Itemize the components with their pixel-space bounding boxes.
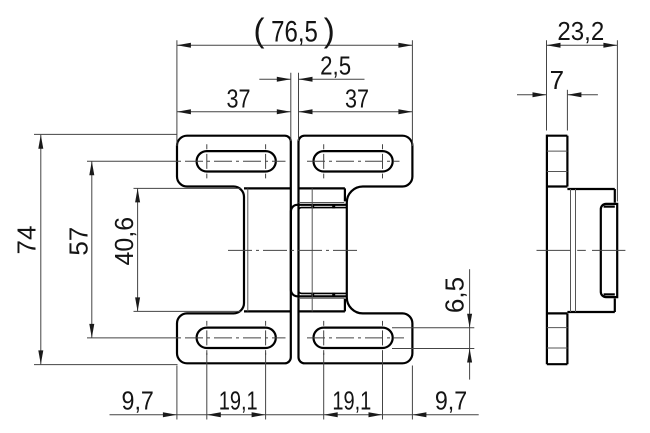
arrows 2,5 (277, 77, 291, 82)
side tab edge bottom (547, 312, 568, 314)
right plate top edge (299, 187, 345, 189)
arrowheads (38, 43, 617, 418)
arrows 37 left (177, 109, 191, 114)
slot cross marks top (207, 144, 383, 178)
side bar left edge (546, 135, 548, 365)
arrows 74 (38, 135, 43, 149)
dim line 57 (91, 161, 93, 338)
ext lines gap 2,5 (291, 73, 299, 141)
side plate right edge lower (614, 298, 616, 312)
svg-text:37: 37 (345, 84, 369, 113)
slot centerline top-right (307, 160, 400, 162)
left plate top edge (244, 187, 291, 189)
right plate right edge lower (344, 299, 346, 312)
svg-text:): ) (324, 11, 335, 48)
arrows bottom chain (163, 412, 177, 417)
side knuckle ledge top (604, 206, 615, 208)
bend line left plate (247, 188, 249, 311)
slot bottom-left (197, 328, 276, 348)
side horizontal centerline (537, 249, 626, 251)
left leaf outline (177, 136, 291, 364)
arrows 76,5 (177, 43, 191, 48)
dim line 37 left (177, 111, 291, 113)
svg-text:37: 37 (227, 84, 251, 113)
left plate bottom edge (244, 310, 291, 312)
knuckle inner contour (298, 208, 347, 294)
dim line 23,2 (547, 44, 618, 46)
dim line 74 (40, 135, 42, 365)
slot top-left (197, 151, 276, 171)
svg-text:76,5: 76,5 (271, 14, 318, 48)
right plate right edge upper (344, 188, 346, 201)
dim line 6,5 (469, 269, 471, 379)
side slot edge lines (547, 151, 568, 348)
dim line 76,5 (177, 44, 413, 46)
dim line 40,6 (137, 188, 139, 311)
dim line bottom chain (110, 414, 479, 416)
slot centerline bottom-right (307, 337, 404, 339)
side tab edge top (547, 185, 568, 187)
knuckle seam line bottom (299, 297, 345, 299)
arrows 57 (89, 161, 94, 175)
side plate right edge upper (614, 189, 616, 203)
arrows 40,6 (135, 188, 140, 202)
ext lines 74 (34, 134, 178, 364)
arrows 7 (533, 92, 547, 97)
knuckle seam line top (299, 202, 345, 204)
knuckle outer contour (291, 205, 347, 296)
ext line 7 (566, 90, 568, 131)
svg-text:74: 74 (11, 226, 41, 255)
arrows 23,2 (547, 43, 561, 48)
ext lines 40,6 (134, 188, 241, 311)
svg-text:19,1: 19,1 (332, 386, 371, 415)
slot centerline bottom-left (87, 337, 181, 339)
bend line right plate (311, 188, 313, 311)
side plate top edge (567, 188, 614, 190)
side sheet inner lines (571, 189, 576, 312)
ext lines 23,2 (547, 40, 618, 201)
side knuckle ledge bottom (604, 293, 615, 295)
slot bottom-right (314, 328, 393, 348)
slot top-right (314, 151, 393, 171)
side bar right edge bottom tab (566, 313, 568, 364)
dim line 2,5 (259, 78, 364, 80)
svg-text:7: 7 (550, 65, 564, 95)
side plate bottom edge (567, 311, 614, 313)
right leaf outline (299, 136, 413, 364)
ext lines total width (177, 40, 413, 146)
right plate bottom edge (299, 310, 345, 312)
side knuckle (601, 204, 617, 297)
dim line 37 right (299, 111, 413, 113)
slot centerline top-left (87, 160, 181, 162)
svg-text:6,5: 6,5 (440, 277, 470, 313)
svg-text:19,1: 19,1 (219, 386, 258, 415)
side bar bottom edge (547, 363, 568, 365)
knuckle curl tangent joints (311, 205, 314, 209)
svg-text:9,7: 9,7 (122, 387, 154, 415)
svg-text:9,7: 9,7 (435, 387, 467, 415)
dim line 7 (517, 94, 598, 96)
svg-text:(: ( (254, 11, 265, 48)
side bar top edge (547, 135, 568, 137)
ext lines bottom chain (177, 353, 413, 420)
front horizontal centerline (228, 249, 357, 251)
ext lines 6,5 (392, 328, 474, 349)
svg-text:2,5: 2,5 (320, 52, 351, 81)
svg-text:23,2: 23,2 (557, 17, 604, 46)
side bar right edge top tab (566, 136, 568, 187)
arrows 6,5 (467, 314, 472, 328)
svg-text:57: 57 (64, 227, 94, 256)
svg-text:40,6: 40,6 (110, 217, 139, 266)
arrows 37 right (299, 109, 313, 114)
slot cross marks bottom (207, 321, 383, 355)
